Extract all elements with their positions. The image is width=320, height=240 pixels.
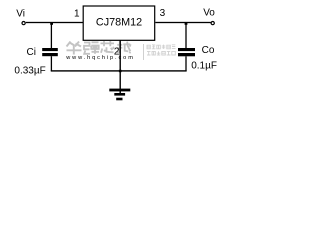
svg-text:Ci: Ci <box>27 47 36 58</box>
terminal Vo <box>211 22 214 25</box>
watermark 华强芯城 char 4 (城) <box>117 41 131 53</box>
ground <box>109 89 130 101</box>
svg-text:CJ78M12: CJ78M12 <box>96 17 142 29</box>
wire ground bus bottom <box>51 70 187 71</box>
svg-text:2: 2 <box>114 47 120 58</box>
wire Ci bottom <box>51 56 52 71</box>
wire output top <box>155 22 211 23</box>
regulator U1 CJ78M12 <box>83 6 155 40</box>
terminal Vi <box>22 22 25 25</box>
svg-text:Vi: Vi <box>16 8 25 19</box>
watermark 华强芯城 char 2 (强) <box>84 42 99 54</box>
watermark divider <box>143 44 145 60</box>
watermark 华强芯城 char 3 (芯) <box>101 41 115 53</box>
svg-text:0.1µF: 0.1µF <box>191 61 217 72</box>
svg-text:0.33µF: 0.33µF <box>14 66 45 77</box>
capacitor Ci <box>42 48 58 56</box>
svg-text:3: 3 <box>160 8 166 19</box>
wire Co bottom <box>185 56 186 71</box>
wire input top <box>26 22 84 23</box>
node junction input/Ci <box>50 23 53 25</box>
wire Ci top <box>51 23 52 48</box>
svg-text:Vo: Vo <box>203 8 215 19</box>
node junction output/Co <box>185 23 188 25</box>
watermark 华强芯城 char 1 (华) <box>67 42 82 55</box>
svg-text:1: 1 <box>74 8 80 19</box>
watermark right tagline row 2 <box>147 51 175 55</box>
wire pin2 / ground stem <box>120 40 121 93</box>
node junction ground <box>119 70 122 72</box>
svg-text:Co: Co <box>202 45 215 56</box>
wire Co top <box>185 23 186 48</box>
capacitor Co <box>178 48 195 56</box>
watermark right tagline row 1 <box>147 45 176 49</box>
svg-text:www.hqchip.com: www.hqchip.com <box>65 55 135 61</box>
